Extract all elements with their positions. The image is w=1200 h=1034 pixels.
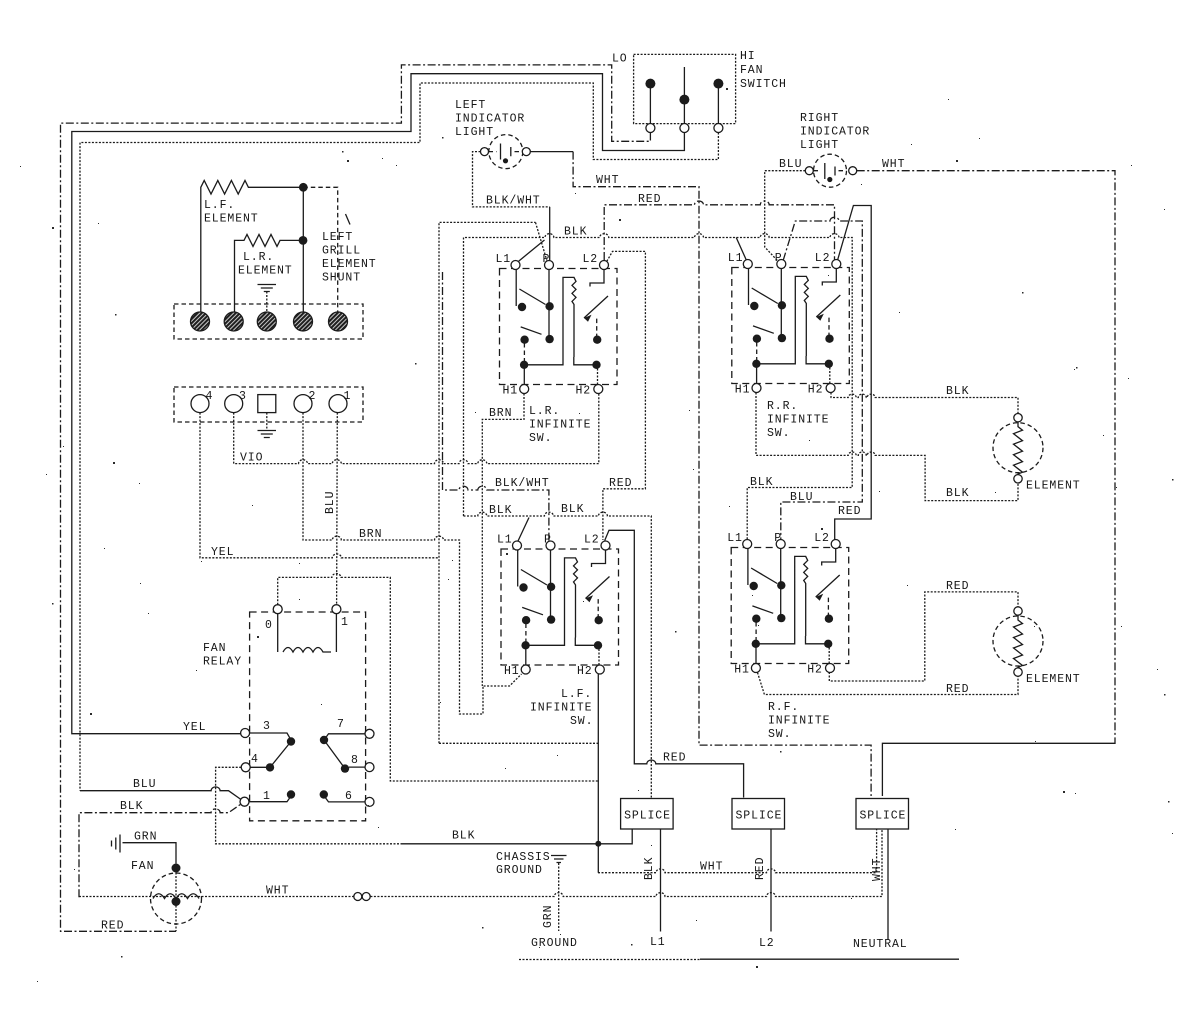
fan switch terminal 3 <box>714 124 723 133</box>
R.R. SW switch blades <box>752 288 778 333</box>
R.F. SW L2 stem and blade <box>822 549 836 566</box>
svg-text:SW.: SW. <box>767 427 790 440</box>
svg-text:H2: H2 <box>807 664 823 677</box>
R.F. SW switch blades <box>751 568 777 613</box>
wire L1 heavy lead <box>660 830 662 932</box>
fan relay coil <box>278 614 337 652</box>
fan relay contact dots and blades <box>287 737 295 745</box>
svg-text:H1: H1 <box>735 384 751 397</box>
svg-text:3: 3 <box>239 390 247 403</box>
wire BLK/WHT left indicator to L.R. infinite switch P <box>473 152 550 207</box>
R.F. SW terminal L1 <box>743 540 752 549</box>
svg-text:L1: L1 <box>728 252 744 265</box>
L.F. SW P stem <box>550 550 552 620</box>
L.R. SW switch blades <box>519 289 545 334</box>
wire NEUTRAL heavy lead <box>887 830 889 941</box>
svg-text:ELEMENT: ELEMENT <box>238 265 293 278</box>
wire BLU to fan relay terminal 1 <box>80 787 241 800</box>
svg-text:L.R.: L.R. <box>243 251 274 264</box>
wire BLK heavy into splice 1 <box>401 830 632 844</box>
R.R. SW contact dots <box>750 302 758 310</box>
wire (left border, dotted) fan switch HI terminal to BLU relay feed <box>80 83 718 791</box>
svg-text:VIO: VIO <box>240 452 263 465</box>
R.R. SW left column link <box>756 342 758 360</box>
svg-text:6: 6 <box>345 790 353 803</box>
infinite switch L.R. SW box <box>500 269 618 385</box>
svg-text:R.R.: R.R. <box>767 400 798 413</box>
wire BLU R.R. P to R.F. P <box>781 217 863 539</box>
svg-text:YEL: YEL <box>211 546 234 559</box>
fan switch internal stems <box>650 67 718 124</box>
wire BLU TB2-1 to fan relay coil 1 <box>336 413 339 605</box>
wire BLU right indicator to R.R. infinite switch P <box>765 171 806 262</box>
svg-text:H2: H2 <box>808 384 824 397</box>
wire RED fan to L1 loop <box>175 906 177 932</box>
R.F. SW heater element <box>756 556 808 643</box>
svg-text:4: 4 <box>251 753 259 766</box>
svg-text:INDICATOR: INDICATOR <box>800 126 870 139</box>
L.F. SW terminal H1 <box>521 665 530 674</box>
fan relay box <box>250 612 366 821</box>
wire RED bus to L2 of rear infinite switches <box>604 201 834 260</box>
wire (left border, solid) fan switch center terminal to YEL relay terminal 3 <box>72 74 685 734</box>
svg-text:GROUND: GROUND <box>531 937 578 950</box>
R.F. SW P stem <box>780 549 782 619</box>
svg-text:FAN: FAN <box>740 64 763 77</box>
R.R. SW terminal H2 <box>826 384 835 393</box>
fan motor junction top <box>172 864 181 873</box>
svg-text:FAN: FAN <box>203 642 226 655</box>
svg-text:ELEMENT: ELEMENT <box>1026 673 1081 686</box>
fan relay terminal 6 <box>365 797 374 806</box>
svg-text:H2: H2 <box>577 665 593 678</box>
svg-text:YEL: YEL <box>183 721 206 734</box>
R.R. SW L2 stem and blade <box>822 269 836 286</box>
wire WHT upper bus (relay coil return) <box>598 830 877 873</box>
junction grill shunt mid <box>299 236 308 245</box>
svg-text:P: P <box>774 532 782 545</box>
wire pilot diagonal to L.R. P <box>536 222 547 260</box>
svg-text:WHT: WHT <box>700 861 723 874</box>
fan relay coil terminal 1 <box>332 605 341 614</box>
svg-text:L1: L1 <box>650 936 666 949</box>
svg-text:L2: L2 <box>815 252 831 265</box>
svg-text:L1: L1 <box>496 253 512 266</box>
wire BLK R.R. H2 to element top <box>831 393 1018 422</box>
svg-text:NEUTRAL: NEUTRAL <box>853 938 908 951</box>
wire shunt junction vertical <box>302 187 304 311</box>
wire RED R.R. L2 to R.F. L2 <box>835 206 872 540</box>
L.R. SW terminal L1 <box>511 261 520 270</box>
svg-text:BLK/WHT: BLK/WHT <box>486 195 541 208</box>
L.R. SW L1 stem <box>515 270 517 307</box>
L.R. SW terminal H2 <box>594 385 603 394</box>
svg-text:H1: H1 <box>503 385 519 398</box>
terminal block TB2 terminal 2 <box>294 395 312 413</box>
svg-text:LEFT: LEFT <box>322 231 353 244</box>
R.F. SW H1 stem <box>755 644 757 664</box>
wire L2 heavy lead <box>770 830 772 932</box>
left indicator light terminal right <box>522 148 530 156</box>
svg-text:SW.: SW. <box>768 728 791 741</box>
svg-text:L2: L2 <box>759 937 775 950</box>
wire GRN ground to fan <box>123 843 177 864</box>
wire RED R.F. H1 to element bottom <box>758 673 1019 695</box>
R.R. SW H2 stem <box>829 364 831 384</box>
terminal block TB1 <box>174 304 363 339</box>
L.R. SW P stem <box>548 270 550 340</box>
svg-text:BLU: BLU <box>133 778 156 791</box>
terminal block TB1 terminal 5 (hatched) <box>329 312 348 331</box>
R.F. SW contact dots <box>750 582 758 590</box>
infinite switch L.F. SW box <box>501 549 619 665</box>
terminal block TB1 terminal 3 (hatched) <box>257 312 276 331</box>
wire GRN chassis ground lead <box>558 863 560 931</box>
chassis ground (bottom center) <box>551 856 567 863</box>
svg-text:RED: RED <box>754 857 767 880</box>
junction L.F. H2 / BLK <box>595 841 601 847</box>
splice S2 <box>732 799 785 830</box>
fan switch contact dot LO <box>645 79 655 89</box>
svg-text:RED: RED <box>946 580 969 593</box>
svg-text:WHT: WHT <box>871 858 884 881</box>
chassis ground (fan, GRN) <box>112 835 121 853</box>
splice S1 <box>621 799 674 830</box>
R.R. SW terminal H1 <box>752 384 761 393</box>
svg-text:HI: HI <box>740 50 756 63</box>
R.R. SW terminal L2 <box>832 260 841 269</box>
svg-text:ELEMENT: ELEMENT <box>1026 480 1081 493</box>
fan relay coil terminal 0 <box>273 605 282 614</box>
svg-text:BLK: BLK <box>643 857 656 880</box>
L.F. SW L1 stem <box>517 550 519 587</box>
svg-text:BLK: BLK <box>120 800 143 813</box>
svg-text:FAN: FAN <box>131 860 154 873</box>
svg-text:BLU: BLU <box>779 158 802 171</box>
wire pilot vertical L.R. P to YEL tee and L.F. H2 <box>439 222 536 743</box>
svg-text:GRN: GRN <box>542 905 555 928</box>
svg-text:L2: L2 <box>584 534 600 547</box>
svg-text:L.F.: L.F. <box>561 688 592 701</box>
L.F. SW terminal P <box>546 541 555 550</box>
fan switch box <box>634 54 736 123</box>
svg-text:H2: H2 <box>576 385 592 398</box>
terminal block TB2 ground pad (square) <box>258 395 276 413</box>
svg-text:RELAY: RELAY <box>203 656 242 669</box>
svg-text:CHASSIS: CHASSIS <box>496 851 551 864</box>
L.F. SW contact dots <box>519 583 527 591</box>
fan motor junction center <box>172 897 181 906</box>
wire WHT lower bus <box>79 896 354 898</box>
connector pair on WHT bus <box>354 893 362 901</box>
right indicator light terminal right <box>849 167 857 175</box>
L.F. SW terminal L1 <box>513 541 522 550</box>
wire BLK lower branch to splice 1 <box>464 512 652 797</box>
wire BRN L.R. H1 drop to L.F. H1 <box>482 394 524 687</box>
L.R. SW terminal L2 <box>600 261 609 270</box>
svg-text:RED: RED <box>946 683 969 696</box>
chassis ground below TB2 square <box>266 413 268 429</box>
R.F. SW terminal P <box>776 540 785 549</box>
svg-text:ELEMENT: ELEMENT <box>204 213 259 226</box>
L.R. SW heater element <box>524 277 576 364</box>
terminal block TB2 terminal 1 <box>329 395 347 413</box>
wire BLK/WHT to L.F. P <box>443 272 549 541</box>
svg-text:INDICATOR: INDICATOR <box>455 113 525 126</box>
svg-text:BLK/WHT: BLK/WHT <box>495 477 550 490</box>
terminal block TB1 terminal 1 (hatched) <box>191 312 210 331</box>
L.R. SW terminal P <box>545 261 554 270</box>
L.R. SW terminal H1 <box>520 385 529 394</box>
svg-text:L2: L2 <box>583 253 599 266</box>
L.R. SW H1 stem <box>523 365 525 385</box>
R.F. SW terminal H2 <box>826 664 835 673</box>
svg-text:BLK: BLK <box>452 830 475 843</box>
R.F. SW L1 stem <box>747 549 749 586</box>
wire BLK diagonal to L.F. L1 <box>518 518 529 542</box>
R.F. SW terminal H1 <box>751 664 760 673</box>
wire VIO TB2-3 to L.R. H2 <box>234 394 599 464</box>
svg-text:LEFT: LEFT <box>455 99 486 112</box>
svg-text:2: 2 <box>309 390 317 403</box>
bottom rule <box>519 959 700 961</box>
wire terminal 4 lead to BLK splice feed <box>216 767 401 844</box>
splice S3 <box>856 799 909 830</box>
element E2 (surface unit) <box>993 616 1043 666</box>
svg-text:BLK: BLK <box>750 476 773 489</box>
svg-text:WHT: WHT <box>596 174 619 187</box>
svg-text:SPLICE: SPLICE <box>624 810 671 823</box>
svg-text:RIGHT: RIGHT <box>800 112 839 125</box>
fan switch contact dot HI <box>713 79 723 89</box>
L.F. SW terminal H2 <box>595 665 604 674</box>
svg-text:P: P <box>543 253 551 266</box>
fan motor <box>151 873 202 924</box>
svg-text:RED: RED <box>609 477 632 490</box>
svg-text:SWITCH: SWITCH <box>740 78 787 91</box>
svg-text:1: 1 <box>344 390 352 403</box>
fan switch terminal 1 <box>646 124 655 133</box>
R.R. SW P stem <box>780 269 782 339</box>
wire pilot horizontal to L.F. H2 <box>439 742 598 744</box>
R.R. SW terminal L1 <box>743 260 752 269</box>
svg-text:SHUNT: SHUNT <box>322 272 361 285</box>
svg-text:LO: LO <box>612 53 628 66</box>
L.R. SW L2 stem and blade <box>590 270 604 287</box>
svg-text:BLU: BLU <box>324 491 337 514</box>
infinite switch R.R. SW box <box>732 268 850 384</box>
fan switch terminal 2 <box>680 124 689 133</box>
svg-text:SW.: SW. <box>529 432 552 445</box>
junction grill shunt top <box>299 183 308 192</box>
svg-text:WHT: WHT <box>882 158 905 171</box>
resistor L.F. ELEMENT <box>201 181 299 312</box>
svg-text:ELEMENT: ELEMENT <box>322 258 377 271</box>
resistor L.R. ELEMENT <box>235 234 300 311</box>
L.F. SW L2 stem and blade <box>592 550 606 567</box>
fan relay terminal 8 <box>365 763 374 772</box>
R.F. SW terminal L2 <box>831 540 840 549</box>
fan relay terminal 3 <box>241 729 250 738</box>
wire BLK diagonal to L.R. L1 <box>519 240 545 261</box>
R.F. SW left column link <box>755 622 757 640</box>
svg-text:GRN: GRN <box>134 831 157 844</box>
svg-text:P: P <box>544 534 552 547</box>
svg-text:RED: RED <box>663 752 686 765</box>
svg-text:P: P <box>775 252 783 265</box>
svg-text:GRILL: GRILL <box>322 245 361 258</box>
svg-text:1: 1 <box>341 616 349 629</box>
svg-text:BRN: BRN <box>359 528 382 541</box>
svg-text:INFINITE: INFINITE <box>530 702 592 715</box>
wire BLK R.R. H1 to element bottom <box>756 393 1018 501</box>
wire LEFT GRILL ELEMENT SHUNT (dashed) <box>303 187 337 311</box>
R.R. SW H1 stem <box>756 364 758 384</box>
R.R. SW L1 stem <box>748 269 750 306</box>
L.F. SW heater element <box>526 558 578 645</box>
wire RED R.F. H2 to element top <box>829 592 1018 681</box>
L.F. SW H2 stem <box>598 646 600 666</box>
svg-text:BLU: BLU <box>790 491 813 504</box>
svg-text:8: 8 <box>351 754 359 767</box>
R.R. SW heater element <box>756 276 808 363</box>
wire BLK from white bus corner to fan relay terminal 1 <box>79 804 241 897</box>
terminal block TB2 terminal 4 <box>191 395 209 413</box>
svg-text:L.F.: L.F. <box>204 199 235 212</box>
terminal block TB2 terminal 3 <box>225 395 243 413</box>
svg-text:R.F.: R.F. <box>768 701 799 714</box>
svg-text:H1: H1 <box>734 664 750 677</box>
fan relay terminal 4 <box>241 763 250 772</box>
terminal block TB2 <box>174 387 363 422</box>
svg-text:SW.: SW. <box>570 715 593 728</box>
L.F. SW switch blades <box>521 570 547 615</box>
L.R. SW H2 stem <box>597 365 599 385</box>
svg-text:GROUND: GROUND <box>496 864 543 877</box>
svg-text:SPLICE: SPLICE <box>736 810 783 823</box>
svg-text:BLK: BLK <box>564 226 587 239</box>
L.R. SW contact dots <box>518 303 526 311</box>
svg-text:L2: L2 <box>814 532 830 545</box>
wire L1 feed (left border, dash-dot) from fan switch LO terminal to RED fan loop <box>61 65 651 931</box>
svg-text:3: 3 <box>263 720 271 733</box>
svg-text:LIGHT: LIGHT <box>455 126 494 139</box>
L.F. SW terminal L2 <box>601 541 610 550</box>
R.F. SW H2 stem <box>828 644 830 664</box>
wire fan relay coil 0 to white bus (neutral) <box>278 574 598 781</box>
wire WHT lower bus right <box>370 830 882 897</box>
svg-text:H1: H1 <box>504 665 520 678</box>
wire WHT right indicator to splice 3 via right border <box>857 171 1115 740</box>
infinite switch R.F. SW box <box>731 548 849 664</box>
L.R. SW left column link <box>523 343 525 361</box>
right indicator light lamp <box>814 154 847 187</box>
fan motor lead <box>175 873 177 898</box>
svg-text:0: 0 <box>265 619 273 632</box>
svg-text:BLK: BLK <box>489 504 512 517</box>
svg-text:L1: L1 <box>727 532 743 545</box>
R.R. SW terminal P <box>777 260 786 269</box>
wire BRN TB2-2 to L.F. H1 <box>303 413 522 714</box>
shunt tick mark <box>346 214 351 225</box>
wire RED L.R. L2 to L.F. L2 <box>603 251 646 540</box>
L.F. SW left column link <box>525 624 527 642</box>
svg-text:INFINITE: INFINITE <box>529 419 591 432</box>
left indicator light lamp <box>489 135 523 169</box>
svg-text:7: 7 <box>337 718 345 731</box>
left indicator light terminal left <box>481 148 489 156</box>
svg-text:INFINITE: INFINITE <box>768 715 830 728</box>
svg-text:BLK: BLK <box>561 503 584 516</box>
svg-text:BLK: BLK <box>946 487 969 500</box>
fan relay terminal 7 <box>365 729 374 738</box>
terminal block TB1 terminal 2 (hatched) <box>224 312 243 331</box>
svg-text:WHT: WHT <box>266 885 289 898</box>
element E1 (surface unit) <box>993 423 1043 473</box>
wire RED L.F. L2 to splice 2 <box>605 530 744 797</box>
svg-text:RED: RED <box>101 920 124 933</box>
svg-text:SPLICE: SPLICE <box>860 810 907 823</box>
chassis ground above TB1 terminal 3 <box>258 285 277 292</box>
svg-text:RED: RED <box>638 193 661 206</box>
svg-text:LIGHT: LIGHT <box>800 139 839 152</box>
right indicator light terminal left <box>805 167 813 175</box>
fan relay terminal 1 (switch) <box>240 797 249 806</box>
wire L.F. H2 drop to junction and white bus <box>597 673 599 873</box>
svg-text:BLK: BLK <box>946 385 969 398</box>
terminal block TB1 terminal 4 (hatched) <box>294 312 313 331</box>
wire YEL TB2-4 to pilot tee <box>200 413 439 558</box>
fan switch contact dot center <box>679 95 689 105</box>
svg-text:L.R.: L.R. <box>529 405 560 418</box>
L.F. SW H1 stem <box>525 646 527 666</box>
wire BLK diagonal to R.R. L1 <box>736 238 746 261</box>
svg-text:INFINITE: INFINITE <box>767 414 829 427</box>
wire BLK bus feeding L1 of all infinite switches <box>464 234 853 540</box>
svg-text:4: 4 <box>206 390 214 403</box>
svg-text:RED: RED <box>838 505 861 518</box>
wire WHT left indicator to splice 3 via long vertical <box>530 151 573 153</box>
svg-text:L1: L1 <box>497 534 513 547</box>
svg-text:BRN: BRN <box>489 407 512 420</box>
